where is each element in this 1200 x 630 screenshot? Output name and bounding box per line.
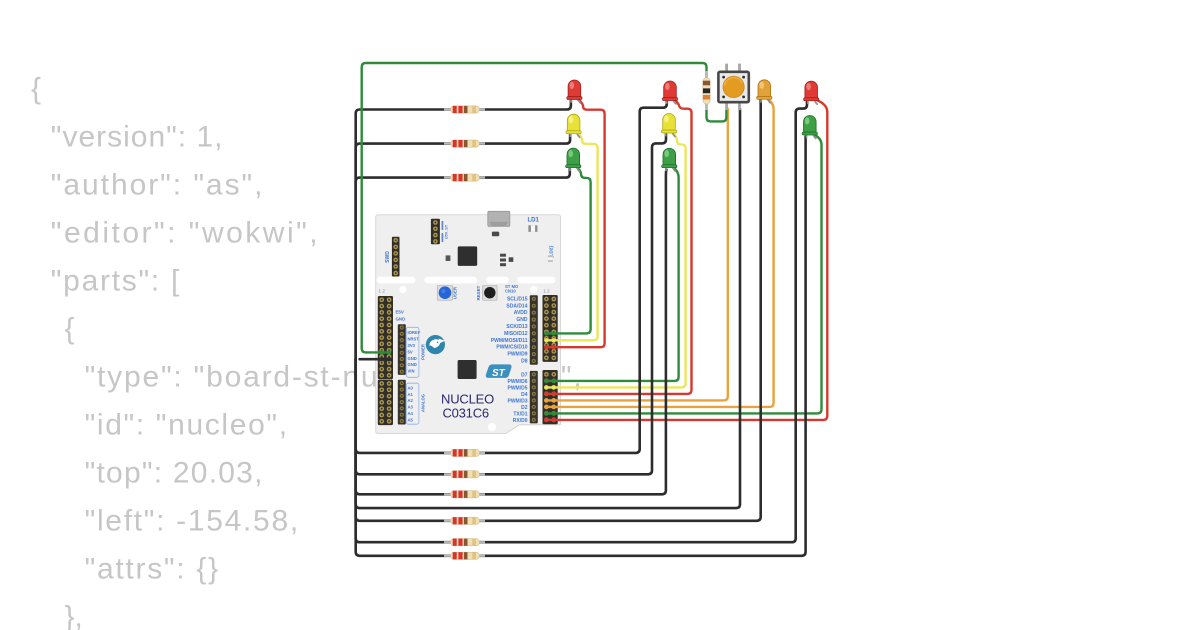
- wire black LED6 cathode to R6 to GND: [356, 170, 667, 495]
- led LED7 orange: [757, 80, 772, 104]
- svg-text:"attrs": {}: "attrs": {}: [85, 553, 220, 586]
- svg-text:NUCLEO: NUCLEO: [441, 391, 494, 406]
- led LED6 green: [662, 148, 677, 171]
- resistor R10 10kohm vertical: [703, 71, 710, 110]
- resistor R8 220ohm: [444, 541, 485, 543]
- svg-text:{: {: [65, 313, 75, 346]
- svg-text:D8: D8: [521, 359, 528, 365]
- wire red LED4 anode to D4: [546, 99, 692, 394]
- connector left morpho header CN7 top: [378, 296, 393, 379]
- svg-text:D4: D4: [521, 392, 528, 398]
- svg-text:"editor": "wokwi",: "editor": "wokwi",: [51, 217, 320, 250]
- logo wokwi: [426, 335, 445, 354]
- wire black LED2 cathode to R2 to GND: [356, 134, 570, 359]
- logo ST: [486, 364, 512, 378]
- node right pin labels: [491, 296, 528, 424]
- svg-text:ANALOG: ANALOG: [421, 394, 426, 412]
- svg-text:PWM/D5: PWM/D5: [508, 385, 528, 391]
- svg-text:U5V_ST: U5V_ST: [445, 224, 449, 239]
- wire green 5V rail to R10: [362, 63, 707, 352]
- svg-text:PWM/D3: PWM/D3: [508, 398, 528, 404]
- wire black LED7 cathode to R7 to GND: [356, 100, 761, 521]
- resistor R9 220ohm: [444, 555, 485, 557]
- wire green LED9 anode to D1: [546, 134, 822, 413]
- svg-text:A1: A1: [408, 392, 414, 397]
- connector left morpho header CN7 bottom: [378, 380, 393, 425]
- svg-text:VIN: VIN: [408, 369, 415, 374]
- passive components: [500, 254, 506, 257]
- svg-text:MISO/D12: MISO/D12: [504, 331, 528, 337]
- node JSON background text: [31, 73, 583, 630]
- svg-text:A5: A5: [408, 418, 414, 423]
- connector JP1 header: [431, 219, 440, 245]
- resistor R1 220ohm: [444, 108, 485, 110]
- svg-text:USER: USER: [453, 286, 458, 299]
- svg-text:A3: A3: [408, 405, 414, 410]
- svg-text:NRST: NRST: [408, 336, 420, 341]
- svg-text:1 2: 1 2: [543, 288, 550, 293]
- svg-text:GND: GND: [516, 317, 528, 323]
- svg-text:GND: GND: [408, 362, 417, 367]
- svg-text:PWM/D9: PWM/D9: [508, 352, 528, 358]
- svg-text:A4: A4: [408, 411, 414, 416]
- svg-text:PWM/D6: PWM/D6: [508, 379, 528, 385]
- led LED4 red: [662, 81, 677, 104]
- connector right arduino header D7-D0: [530, 371, 538, 424]
- connector left arduino header analog: [398, 380, 406, 425]
- button SW1 pushbutton: [718, 64, 748, 111]
- wire black LED4 cathode to R4 to GND: [356, 100, 667, 453]
- wire GND bus from board: [360, 358, 390, 361]
- svg-text:5V: 5V: [408, 349, 413, 354]
- wire green LED3 anode to D12: [546, 167, 591, 333]
- svg-text:{: {: [31, 73, 41, 106]
- svg-text:D7: D7: [521, 372, 528, 378]
- wire black LED8 cathode to R8 to GND: [356, 100, 807, 542]
- resistor R5 220ohm: [444, 473, 485, 475]
- wire red LED8 anode to D0: [546, 99, 828, 420]
- svg-text:"id": "nucleo",: "id": "nucleo",: [85, 409, 289, 442]
- svg-text:"author": "as",: "author": "as",: [51, 169, 265, 202]
- connector right morpho header CN10 bottom: [543, 370, 558, 424]
- svg-text:POWER: POWER: [421, 344, 426, 360]
- svg-text:TX/D1: TX/D1: [513, 411, 527, 417]
- ic ST-LINK: [458, 246, 478, 266]
- svg-text:},: },: [65, 601, 83, 630]
- wire black button to GND: [356, 109, 740, 508]
- svg-text:AVDD: AVDD: [514, 310, 528, 316]
- wire green R10 to button: [707, 104, 727, 121]
- led LED8 red: [804, 81, 819, 105]
- led LED2 yellow: [566, 114, 581, 138]
- resistor R4 220ohm: [444, 452, 485, 454]
- wire red LED1 anode to D10: [546, 99, 605, 347]
- svg-text:CN10: CN10: [505, 289, 516, 294]
- wire orange LED7 anode to D2: [546, 99, 774, 407]
- svg-text:"parts": [: "parts": [: [51, 265, 181, 298]
- svg-text:C031C6: C031C6: [442, 405, 489, 420]
- svg-text:E5V: E5V: [396, 310, 404, 315]
- svg-text:"top": 20.03,: "top": 20.03,: [85, 457, 264, 490]
- connector left arduino header power: [398, 324, 406, 375]
- svg-text:LD1: LD1: [528, 218, 540, 224]
- svg-text:PWM/CS/D10: PWM/CS/D10: [496, 345, 527, 351]
- resistor R7 220ohm: [444, 520, 485, 522]
- wire green LED6 anode to D6: [546, 167, 679, 381]
- svg-text:GND: GND: [408, 356, 417, 361]
- ic U5 MCU: [458, 360, 477, 379]
- svg-text:"version": 1,: "version": 1,: [51, 121, 224, 154]
- resistor R2 220ohm: [444, 143, 485, 145]
- wire yellow LED2 anode to D11: [546, 133, 598, 340]
- svg-text:RESET: RESET: [476, 285, 481, 300]
- svg-text:SDA/D14: SDA/D14: [506, 303, 527, 309]
- connector right arduino header D15-D8: [530, 295, 538, 365]
- svg-text:GND: GND: [396, 316, 406, 321]
- usb connector J1: [488, 211, 510, 226]
- svg-text:RX/D0: RX/D0: [513, 418, 528, 424]
- wire orange button to D3: [546, 109, 728, 400]
- svg-text:D2: D2: [521, 405, 528, 411]
- wire black LED9 cathode to R9 to GND: [356, 137, 806, 556]
- led LED1 red: [567, 80, 582, 104]
- board U1 NUCLEO-C031C6: [376, 211, 562, 434]
- wire black LED5 cathode to R5 to GND: [356, 134, 666, 474]
- svg-text:ST: ST: [492, 368, 506, 379]
- wire yellow LED5 anode to D5: [546, 133, 686, 387]
- resistor R3 220ohm: [444, 177, 485, 179]
- resistor R6 220ohm: [444, 493, 485, 495]
- button RESET B2: [483, 285, 498, 300]
- led LED9 green: [802, 115, 817, 139]
- svg-text:PWM/MOSI/D11: PWM/MOSI/D11: [491, 338, 528, 344]
- svg-text:A2: A2: [408, 398, 414, 403]
- svg-text:A0: A0: [408, 385, 414, 390]
- svg-text:SCL/D15: SCL/D15: [507, 296, 528, 302]
- led LED3 green: [566, 148, 581, 172]
- svg-text:1 2: 1 2: [379, 288, 386, 293]
- wire black LED1 cathode to R1 to GND: [356, 101, 571, 360]
- svg-text:"left": -154.58,: "left": -154.58,: [85, 505, 300, 538]
- svg-text:SCK/D13: SCK/D13: [506, 324, 527, 330]
- svg-text:3V3: 3V3: [408, 343, 416, 348]
- connector SWD header: [392, 237, 400, 277]
- button USER B1: [437, 285, 452, 300]
- svg-text:SWD: SWD: [385, 251, 391, 263]
- node left pin labels: [396, 310, 421, 423]
- wire black LED3 cathode to R3 to GND: [356, 168, 570, 359]
- connector right morpho header CN10 top: [543, 295, 558, 362]
- led LED5 yellow: [661, 114, 676, 137]
